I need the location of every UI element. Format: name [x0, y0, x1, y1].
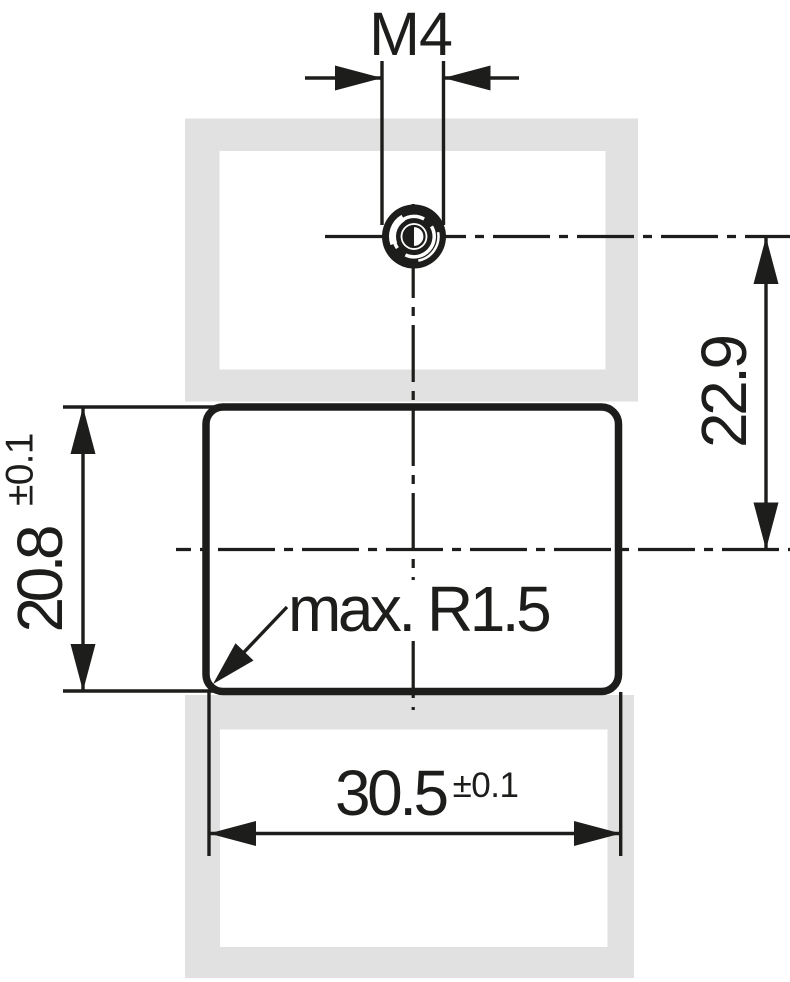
extension line 20.8 top: [63, 405, 230, 408]
extension line M4 right: [442, 61, 445, 225]
dimension M4 left line+arrow: [305, 76, 382, 79]
cutout rounded rectangle: [206, 407, 619, 692]
extension line 30.5 left: [207, 691, 210, 856]
centerline vertical (lower part): [412, 641, 415, 710]
centerline vertical (upper part): [412, 204, 415, 580]
extension line M4 left: [380, 61, 383, 225]
dimension line 20.8: [81, 407, 84, 691]
centerline horizontal through screw (solid part): [325, 235, 466, 238]
panel section top (gray frame): [185, 119, 638, 402]
extension line 20.8 bottom: [63, 689, 230, 692]
panel section bottom (gray frame): [185, 695, 634, 978]
leader arrow max R1.5: [228, 607, 287, 669]
svg-text:22.9: 22.9: [688, 337, 760, 448]
svg-text:max. R1.5: max. R1.5: [288, 573, 549, 645]
svg-text:M4: M4: [369, 0, 452, 68]
dimension line 22.9: [764, 237, 767, 550]
dimension M4 right line+arrow: [444, 76, 520, 79]
screw M4: [382, 205, 446, 269]
centerline horizontal through cutout: [176, 548, 790, 551]
extension line 30.5 right: [619, 692, 622, 856]
centerline horizontal through screw (dash-dot part): [475, 235, 790, 238]
dimension line 30.5: [209, 832, 621, 835]
